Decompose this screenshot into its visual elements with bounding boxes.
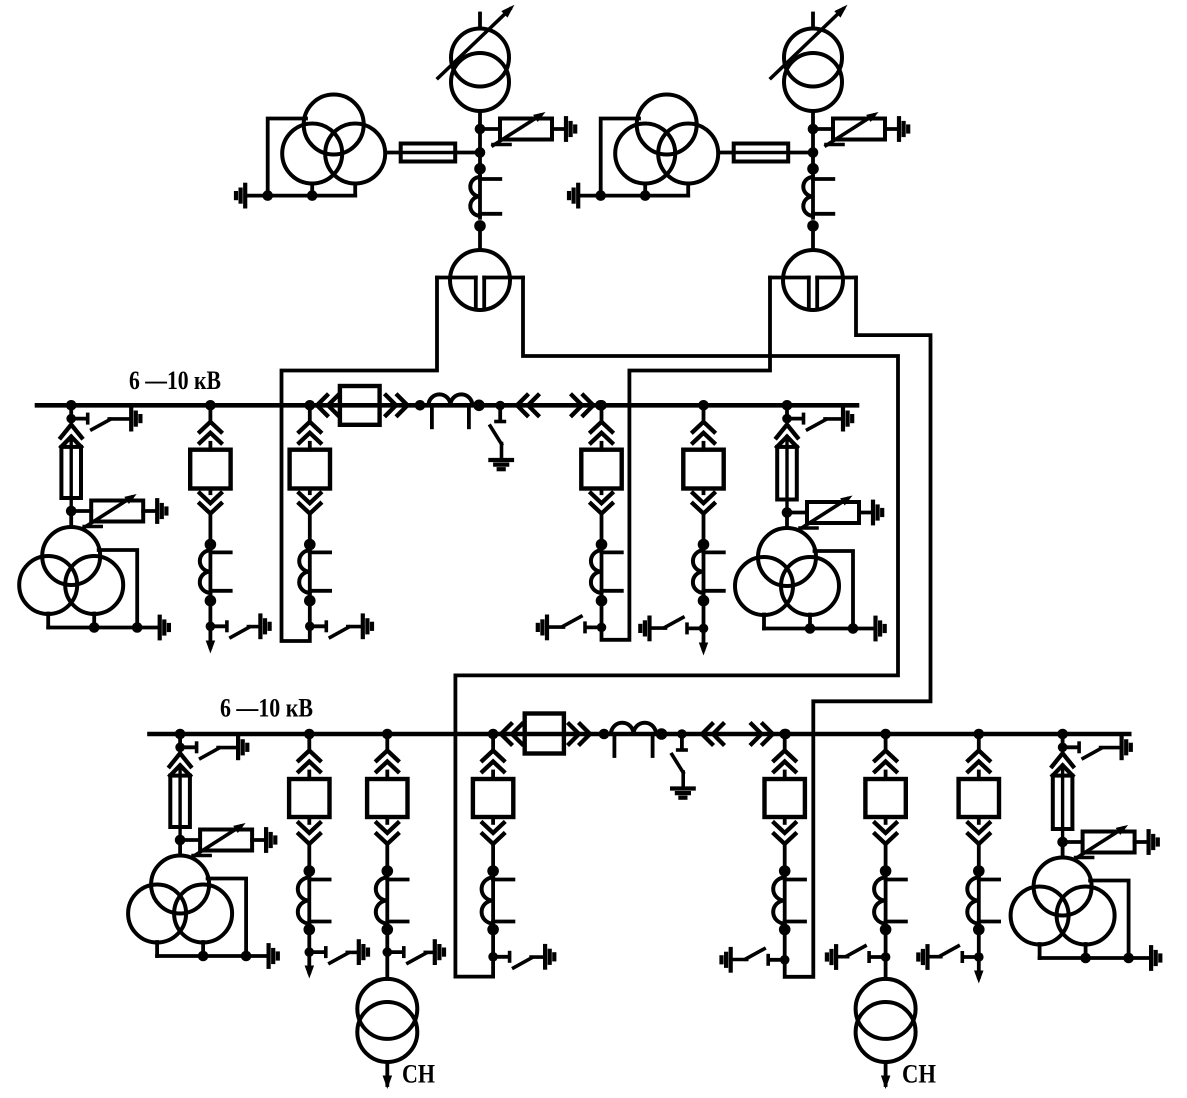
earthing switch QS-f7 — [305, 941, 369, 963]
voltage transformer TV3 — [19, 527, 123, 614]
node bus VT feeder 6 — [1057, 729, 1068, 740]
node — [780, 729, 791, 740]
fuse FU1 — [401, 144, 456, 162]
earthing switch QS-f11 — [827, 946, 890, 968]
wire — [143, 509, 157, 513]
current transformer TA7 — [298, 876, 330, 926]
wire — [252, 838, 266, 842]
wire to arrester FV1 — [480, 127, 500, 131]
node — [596, 539, 608, 551]
node — [487, 924, 499, 936]
wire — [785, 513, 789, 529]
outgoing line arrow — [699, 628, 708, 655]
svg-text:6 —10 кВ: 6 —10 кВ — [129, 366, 221, 395]
ground — [157, 500, 166, 522]
withdrawable contact TV6 — [1052, 753, 1073, 766]
voltage transformer TV5 — [128, 856, 232, 943]
withdrawable contact (upper) Q4 — [299, 422, 320, 450]
withdrawable contact (upper) Q5 — [591, 422, 612, 450]
ground — [266, 829, 275, 851]
node bus VT feeder 5 — [175, 729, 186, 740]
node — [198, 951, 209, 962]
wire — [178, 734, 182, 747]
withdrawable contact (lower) Q6 — [693, 489, 714, 514]
svg-text:СН: СН — [402, 1060, 435, 1089]
earthing switch QS-f12 — [918, 946, 983, 968]
disconnecting contact QB2b — [752, 724, 773, 744]
node — [848, 623, 859, 634]
node bus-1 feeder 4 — [305, 400, 316, 411]
earthing switch QS-f3 — [206, 616, 270, 638]
withdrawable contact (lower) Q7 — [299, 817, 320, 844]
wire — [208, 405, 212, 422]
node — [779, 865, 791, 877]
withdrawable contact (upper) Q8 — [377, 751, 398, 780]
wire to arrester FV5 — [180, 838, 200, 842]
node — [487, 865, 499, 877]
earthing switch QS-B1 — [490, 401, 512, 470]
earthing switch QS-f9 — [488, 946, 554, 968]
secondary winding link TV2 — [579, 119, 689, 196]
wire to arrester FV3 — [71, 509, 91, 513]
sectionalizer breaker QB2 — [525, 714, 564, 754]
wire — [783, 930, 787, 960]
wire — [977, 734, 981, 751]
current transformer TA8 — [376, 876, 408, 926]
node — [304, 865, 316, 877]
node — [880, 924, 892, 936]
node — [415, 400, 426, 411]
wire — [884, 844, 888, 871]
current transformer TA6 — [693, 548, 724, 594]
node — [475, 124, 486, 135]
current transformer TA3 — [200, 548, 231, 594]
wire — [656, 732, 786, 736]
circuit breaker Q11 — [865, 779, 905, 817]
auxiliary transformer T3 — [357, 979, 417, 1062]
wire — [783, 844, 787, 871]
withdrawable contact (lower) Q5 — [591, 489, 612, 514]
fuse FU4 — [777, 437, 797, 513]
node — [596, 595, 608, 607]
wire — [719, 151, 734, 155]
node — [807, 220, 819, 232]
node — [382, 924, 394, 936]
node — [307, 190, 318, 201]
disconnecting contact QB1a — [517, 395, 538, 415]
disconnecting contact left QB1 — [317, 395, 338, 415]
label SN (T3) — [402, 1060, 435, 1089]
withdrawable contact TV5 — [170, 753, 191, 766]
wire T2 reactor right branch — [785, 278, 931, 977]
sectionalizer reactor LR4 — [609, 723, 658, 756]
current transformer TA9 — [482, 876, 514, 926]
wire — [385, 930, 389, 953]
label 6-10 kV section 1 — [129, 366, 221, 395]
node — [808, 147, 819, 158]
wire — [785, 405, 789, 418]
wire — [308, 405, 312, 422]
ground — [566, 118, 575, 140]
wire to arrester FV6 — [1063, 840, 1083, 844]
circuit breaker Q3 — [190, 450, 230, 489]
disconnecting contact right QB2 — [569, 724, 590, 744]
circuit breaker Q7 — [289, 779, 329, 817]
node — [474, 163, 486, 175]
wire T1 reactor left branch — [282, 278, 438, 642]
wire — [811, 111, 815, 169]
wire — [491, 734, 495, 751]
earthing switch QS-f6 — [640, 617, 708, 639]
wire — [472, 403, 600, 407]
node — [473, 400, 485, 412]
node — [474, 220, 486, 232]
wire — [308, 601, 312, 627]
withdrawable contact (upper) Q11 — [875, 751, 896, 780]
current transformer TA10 — [773, 876, 805, 926]
node — [807, 163, 819, 175]
ground — [236, 185, 245, 207]
fuse FU3 — [61, 437, 81, 511]
split reactor LR1 — [437, 250, 523, 310]
wire — [478, 226, 482, 250]
withdrawable contact (lower) Q9 — [483, 817, 504, 844]
node — [973, 865, 985, 877]
ground — [899, 118, 908, 140]
earthing switch QS-f10 — [722, 949, 790, 971]
circuit breaker Q5 — [581, 450, 621, 489]
wire — [885, 127, 899, 131]
label SN (T4) — [902, 1060, 936, 1089]
secondary winding link TV3 — [48, 550, 159, 628]
wire — [491, 930, 495, 957]
withdrawable contact (lower) Q12 — [968, 817, 989, 844]
ground — [1151, 947, 1160, 969]
wire — [884, 930, 888, 958]
node — [262, 190, 273, 201]
node — [205, 539, 217, 551]
wire — [702, 405, 706, 422]
fuse FU6 — [1053, 765, 1073, 842]
outgoing line arrow — [206, 626, 216, 653]
wire — [386, 151, 401, 155]
node bus-2 feeder 7 — [304, 729, 315, 740]
svg-text:СН: СН — [902, 1060, 936, 1089]
wire — [307, 844, 311, 871]
node — [880, 865, 892, 877]
circuit breaker Q12 — [959, 779, 999, 817]
withdrawable contact TV4 — [777, 425, 798, 438]
earthing switch QS-f8 — [383, 941, 445, 963]
node — [640, 190, 651, 201]
wire — [308, 514, 312, 545]
wire — [702, 514, 706, 545]
earthing switch QS-f4 — [305, 616, 372, 638]
disconnecting contact QB1b — [572, 395, 593, 415]
wire — [307, 734, 311, 751]
wire — [385, 844, 389, 871]
sectionalizer breaker QB1 — [340, 386, 380, 425]
circuit breaker Q10 — [765, 779, 805, 817]
wire to arrester FV4 — [787, 511, 807, 515]
node — [805, 623, 816, 634]
split reactor LR2 — [770, 250, 856, 310]
surge arrester FV6 — [1076, 825, 1135, 859]
surge arrester FV5 — [193, 823, 252, 857]
current transformer TA-T2 — [803, 175, 833, 218]
wire — [552, 127, 566, 131]
node — [656, 728, 668, 740]
wire — [491, 844, 495, 871]
node — [1080, 953, 1091, 964]
withdrawable contact (upper) Q10 — [774, 751, 795, 780]
earthing switch QS5 — [175, 737, 247, 759]
node bus-1 feeder 5 — [596, 400, 607, 411]
main transformer T2 (with on-load regulation) — [771, 5, 848, 111]
wire T1 reactor right branch — [455, 278, 898, 977]
wire — [208, 601, 212, 627]
outgoing line arrow — [305, 952, 315, 978]
voltage transformer TV6 — [1011, 858, 1115, 945]
sectionalizer reactor LR3 — [427, 394, 475, 427]
earthing switch QS-B2 — [672, 729, 694, 798]
outgoing line arrow — [974, 957, 984, 984]
node — [205, 595, 217, 607]
ground — [269, 945, 278, 967]
withdrawable contact (upper) Q6 — [693, 422, 714, 450]
incoming line node T1 — [478, 14, 482, 29]
wire — [69, 511, 73, 527]
node bus-2 feeder 12 — [974, 729, 985, 740]
wire — [884, 734, 888, 751]
withdrawable contact (upper) Q9 — [483, 751, 504, 780]
wire — [385, 952, 389, 979]
node — [175, 835, 186, 846]
voltage transformer TV2 — [615, 95, 718, 184]
node bus VT feeder 3 — [66, 400, 77, 411]
outgoing arrow T3 — [383, 1062, 393, 1089]
withdrawable contact (lower) Q10 — [774, 817, 795, 844]
node — [89, 622, 100, 633]
node bus-2 feeder 11 — [880, 729, 891, 740]
node — [1057, 837, 1068, 848]
node — [304, 539, 316, 551]
wire — [977, 844, 981, 871]
node — [66, 506, 77, 517]
wire — [455, 151, 480, 155]
node — [973, 924, 985, 936]
node — [808, 124, 819, 135]
bus 6-10 kV section 1 — [37, 403, 857, 408]
node bus-1 feeder 6 — [698, 400, 709, 411]
label 6-10 kV section 2 — [220, 694, 313, 723]
node — [779, 924, 791, 936]
wire — [564, 732, 611, 736]
wire — [884, 957, 888, 979]
circuit breaker Q4 — [290, 450, 330, 489]
withdrawable contact (lower) Q4 — [299, 489, 320, 514]
svg-text:6 —10 кВ: 6 —10 кВ — [220, 694, 313, 723]
disconnecting contact right QB1 — [386, 395, 408, 415]
node bus-2 feeder 10 — [779, 729, 790, 740]
fuse FU2 — [734, 144, 789, 162]
node bus-2 feeder 8 — [382, 729, 393, 740]
withdrawable contact TV3 — [61, 425, 82, 438]
fuse FU5 — [170, 765, 190, 840]
node — [304, 924, 316, 936]
wire — [69, 405, 73, 418]
node — [475, 147, 486, 158]
ground — [569, 185, 578, 207]
wire — [307, 403, 340, 407]
wire — [385, 734, 389, 751]
wire — [1061, 842, 1065, 858]
node bus-1 feeder 3 — [205, 400, 216, 411]
withdrawable contact (lower) Q3 — [200, 489, 221, 514]
node bus-2 feeder 9 — [488, 729, 499, 740]
incoming line node T2 — [811, 14, 815, 29]
secondary winding link TV5 — [157, 879, 268, 957]
bus 6-10 kV section 2 — [150, 732, 1130, 737]
node — [782, 507, 793, 518]
disconnecting contact left QB2 — [501, 724, 522, 744]
main transformer T1 (with on-load regulation) — [438, 5, 515, 111]
node — [595, 400, 606, 411]
node — [595, 190, 606, 201]
wire — [380, 403, 429, 407]
node bus VT feeder 4 — [782, 400, 793, 411]
earthing switch QS3 — [66, 408, 140, 430]
outgoing arrow T4 — [881, 1062, 891, 1089]
ground — [876, 618, 885, 640]
node — [698, 539, 710, 551]
earthing switch QS6 — [1058, 737, 1131, 759]
current transformer TA12 — [967, 876, 999, 926]
wire — [208, 514, 212, 545]
wire — [1135, 840, 1149, 844]
secondary winding link TV1 — [246, 119, 356, 196]
node — [599, 729, 610, 740]
current transformer TA11 — [874, 876, 906, 926]
circuit breaker Q6 — [683, 450, 723, 489]
wire — [811, 226, 815, 250]
wire — [600, 514, 604, 545]
wire — [600, 601, 604, 628]
wire — [600, 405, 604, 422]
node — [1123, 953, 1134, 964]
node — [304, 595, 316, 607]
wire — [307, 930, 311, 953]
withdrawable contact (upper) Q12 — [968, 751, 989, 780]
node — [132, 622, 143, 633]
node — [241, 951, 252, 962]
wire T2 reactor left branch — [602, 278, 771, 640]
current transformer TA5 — [591, 548, 622, 594]
circuit breaker Q9 — [473, 779, 513, 817]
node — [698, 595, 710, 607]
withdrawable contact (upper) Q7 — [299, 751, 320, 780]
voltage transformer TV1 — [282, 95, 385, 184]
wire — [977, 930, 981, 958]
wire — [788, 151, 813, 155]
wire — [783, 734, 787, 751]
surge arrester FV2 — [826, 112, 885, 146]
wire — [702, 601, 706, 629]
secondary winding link TV6 — [1040, 881, 1151, 959]
wire — [493, 732, 525, 736]
voltage transformer TV4 — [735, 528, 839, 615]
withdrawable contact (lower) Q11 — [875, 817, 896, 844]
disconnecting contact QB2a — [702, 724, 723, 744]
ground — [160, 617, 169, 639]
wire to arrester FV2 — [813, 127, 833, 131]
surge arrester FV3 — [84, 494, 143, 528]
earthing switch QS4 — [782, 408, 852, 430]
withdrawable contact (lower) Q8 — [377, 817, 398, 844]
earthing switch QS-f5 — [538, 616, 607, 638]
wire — [478, 111, 482, 169]
auxiliary transformer T4 — [856, 979, 916, 1062]
wire — [1061, 734, 1065, 747]
secondary winding link TV4 — [764, 551, 875, 629]
ground — [873, 502, 882, 524]
node — [382, 865, 394, 877]
wire — [859, 511, 873, 515]
withdrawable contact (upper) Q3 — [200, 422, 221, 450]
surge arrester FV1 — [493, 112, 552, 146]
current transformer TA4 — [299, 548, 330, 594]
surge arrester FV4 — [800, 496, 859, 530]
wire — [178, 840, 182, 856]
circuit breaker Q8 — [367, 779, 407, 817]
ground — [1149, 831, 1158, 853]
current transformer TA-T1 — [470, 175, 500, 218]
